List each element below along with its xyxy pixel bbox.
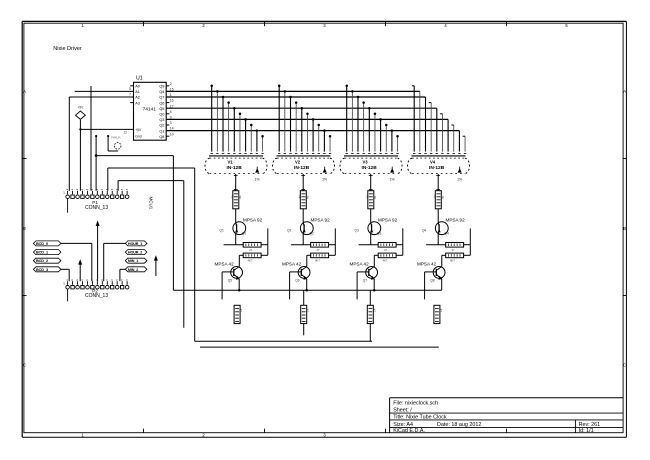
svg-text:Title: Nixie Tube Clock: Title: Nixie Tube Clock — [393, 415, 447, 421]
wire R4 to Q4 — [436, 190, 440, 223]
svg-text:Q3: Q3 — [377, 232, 381, 236]
wire U1-A2 to P1 — [69, 97, 133, 191]
svg-text:Date: 18 aug 2012: Date: 18 aug 2012 — [437, 422, 481, 428]
svg-text:U1: U1 — [136, 76, 143, 82]
wire anode rail feed — [95, 135, 174, 290]
wire R9 to riser — [396, 228, 403, 255]
wire Q6 emitter to rail — [305, 279, 308, 292]
svg-text:BCD_2: BCD_2 — [36, 259, 48, 263]
svg-text:V4: V4 — [430, 160, 436, 165]
svg-text:MCU1: MCU1 — [148, 197, 153, 210]
wire MIN_2 to P2 — [120, 269, 125, 281]
wire anode V3 to R3 — [369, 174, 373, 191]
wire +5V to U1 — [79, 128, 133, 130]
wire cathode bus K2 — [166, 96, 425, 98]
resistor R8 47K — [311, 253, 329, 263]
transistor Q1 MPSA92 — [220, 217, 263, 235]
wire anode V2 to R2 — [301, 174, 305, 191]
svg-text:Sheet: /: Sheet: / — [393, 408, 412, 414]
wire BCD_3 to P2 — [61, 269, 69, 281]
svg-text:HOUR_2: HOUR_2 — [128, 251, 142, 255]
transistor Q8 MPSA42 — [417, 261, 445, 282]
svg-text:PWR_FL: PWR_FL — [111, 137, 121, 140]
svg-text:CONN_13: CONN_13 — [85, 293, 108, 299]
svg-text:Nixie Driver: Nixie Driver — [53, 46, 82, 52]
svg-text:Q3: Q3 — [159, 118, 164, 122]
wire R1 to Q1 — [234, 190, 238, 223]
svg-text:Id: 1/1: Id: 1/1 — [579, 428, 594, 434]
resistor R14 cathode — [301, 305, 310, 323]
svg-text:Q4: Q4 — [159, 90, 164, 94]
svg-text:B: B — [623, 226, 626, 231]
svg-text:IN-12B: IN-12B — [362, 165, 378, 171]
global label BCD_0 — [33, 241, 61, 246]
svg-text:Q4: Q4 — [422, 229, 426, 233]
power +5V symbol — [76, 106, 86, 191]
global label HOUR_1 — [125, 241, 147, 246]
svg-text:Q0: Q0 — [159, 113, 164, 117]
svg-text:10: 10 — [170, 132, 174, 136]
svg-text:HOUR_1: HOUR_1 — [128, 242, 142, 246]
resistor R4 anode 1K — [433, 191, 444, 209]
wire R11 to riser — [464, 228, 471, 255]
svg-text:R2: R2 — [298, 195, 302, 199]
svg-text:IN-12B: IN-12B — [227, 165, 243, 171]
global label MIN_1 — [125, 258, 147, 263]
svg-text:Q3: Q3 — [355, 229, 359, 233]
svg-text:7: 7 — [129, 92, 131, 96]
wire anode V4 to R4 — [436, 174, 440, 191]
wire Q3 collector — [359, 234, 379, 245]
wire R12 links — [442, 255, 471, 266]
wire Q7 emitter to rail — [373, 279, 376, 292]
wire Q8 base — [425, 272, 437, 300]
wire cathode drops V4 corners — [412, 86, 465, 152]
wire Q5 emitter to rail — [238, 279, 241, 292]
svg-text:Q7: Q7 — [159, 96, 164, 100]
resistor R9 470K — [378, 243, 396, 253]
transistor Q7 MPSA42 — [350, 261, 378, 282]
wire cathode bus K8 — [166, 130, 459, 132]
nixie tube V4 IN-12B — [408, 153, 470, 181]
svg-text:KiCad E.D.A.: KiCad E.D.A. — [393, 428, 425, 434]
svg-text:File: nixieclock.sch: File: nixieclock.sch — [393, 401, 438, 407]
svg-text:Q8: Q8 — [159, 135, 164, 139]
wire R15 to bottom bus — [369, 324, 371, 342]
svg-text:Q5: Q5 — [159, 107, 164, 111]
wire cathode bus K6 — [166, 118, 448, 120]
svg-text:47: 47 — [317, 248, 321, 252]
svg-text:Q5: Q5 — [228, 278, 232, 282]
svg-text:4K7: 4K7 — [248, 259, 253, 263]
connector P1 CONN_13 — [63, 189, 129, 212]
power arrow right — [155, 256, 158, 276]
svg-text:2: 2 — [170, 82, 172, 86]
svg-text:Q2: Q2 — [159, 124, 164, 128]
resistor R3 anode 1K — [366, 191, 377, 209]
power arrow small — [79, 260, 82, 281]
global label BCD_1 — [33, 250, 61, 255]
op IC U1 74141 BCD decoder — [123, 76, 173, 141]
wire rail to R14 — [303, 290, 305, 305]
svg-text:V1: V1 — [228, 160, 234, 165]
wire Q4 collector — [426, 234, 446, 245]
wire Q8 emitter to rail — [441, 279, 443, 290]
svg-text:Q6: Q6 — [295, 278, 299, 282]
svg-text:1%: 1% — [390, 177, 395, 181]
svg-text:16: 16 — [170, 99, 174, 103]
svg-text:BCD_0: BCD_0 — [36, 242, 48, 246]
svg-text:3: 3 — [170, 121, 172, 125]
wire cathode bus K1 — [166, 90, 420, 92]
wire emitter rail — [173, 289, 441, 291]
svg-text:Q6: Q6 — [159, 101, 164, 105]
wire R3 to Q3 — [369, 190, 373, 223]
svg-text:Q1: Q1 — [159, 129, 164, 133]
wire Q7 base — [357, 272, 369, 300]
svg-text:IN-12B: IN-12B — [294, 165, 310, 171]
text Nixie Driver — [53, 46, 82, 52]
svg-text:+5V: +5V — [78, 106, 85, 110]
resistor R13 cathode — [234, 305, 243, 323]
svg-text:Q2: Q2 — [287, 229, 291, 233]
global label HOUR_2 — [125, 250, 147, 255]
svg-text:BCD_1: BCD_1 — [36, 251, 48, 255]
svg-text:MPSA 42: MPSA 42 — [350, 261, 370, 266]
svg-text:R1: R1 — [231, 195, 235, 199]
wire bottom bus feed 1 — [108, 168, 195, 341]
svg-text:4: 4 — [170, 110, 172, 114]
svg-text:47: 47 — [306, 309, 310, 313]
svg-text:47: 47 — [384, 248, 388, 252]
resistor R6 47K — [243, 253, 261, 263]
svg-text:1: 1 — [63, 191, 65, 195]
svg-text:MPSA 92: MPSA 92 — [378, 217, 398, 222]
nixie tube V3 IN-12B — [340, 153, 402, 181]
global label BCD_2 — [33, 258, 61, 263]
resistor R11 470K — [446, 243, 464, 253]
wire R2 to Q2 — [301, 190, 305, 223]
svg-text:Q8: Q8 — [430, 278, 434, 282]
svg-text:A2: A2 — [135, 96, 140, 100]
resistor R10 47K — [378, 253, 396, 263]
wire anode V1 to R1 — [234, 174, 238, 191]
pin stubs U1 left A0 A3 — [130, 86, 133, 103]
title block — [390, 398, 623, 434]
svg-text:B: B — [23, 226, 26, 231]
svg-text:MPSA 42: MPSA 42 — [417, 261, 437, 266]
transistor Q4 MPSA92 — [422, 217, 465, 235]
resistor R12 47K — [446, 253, 464, 263]
svg-text:1%: 1% — [457, 177, 462, 181]
wire Q5 base — [222, 272, 234, 300]
svg-text:47: 47 — [452, 248, 456, 252]
resistor R2 anode 1K — [298, 191, 309, 209]
svg-text:A3: A3 — [135, 101, 140, 105]
resistor R5 470K — [243, 243, 261, 253]
connector P2 CONN_13 — [63, 280, 129, 301]
wire cathode drops V3 with junctions — [345, 85, 398, 152]
svg-text:A0: A0 — [135, 85, 140, 89]
svg-text:IN-12B: IN-12B — [429, 165, 445, 171]
wire Q1 collector — [224, 234, 244, 245]
svg-text:R4: R4 — [433, 195, 437, 199]
svg-text:+5V: +5V — [135, 128, 142, 132]
svg-text:47: 47 — [249, 248, 253, 252]
svg-text:1: 1 — [63, 281, 65, 285]
wire R7 to riser — [329, 228, 336, 255]
svg-text:Q9: Q9 — [159, 85, 164, 89]
svg-text:BCD_3: BCD_3 — [36, 268, 48, 272]
wire HOUR_1 to P2 — [104, 243, 126, 281]
wire Q6 base — [290, 272, 302, 300]
svg-text:MPSA 42: MPSA 42 — [215, 261, 235, 266]
wire bottom bus A — [195, 340, 372, 342]
svg-text:4K7: 4K7 — [450, 259, 455, 263]
svg-text:Q4: Q4 — [445, 232, 449, 236]
svg-text:74141: 74141 — [143, 107, 157, 113]
global label MIN_2 — [125, 267, 147, 272]
resistor R7 470K — [311, 243, 329, 253]
svg-text:V3: V3 — [363, 160, 369, 165]
svg-text:5: 5 — [129, 87, 131, 91]
svg-text:A1: A1 — [135, 90, 140, 94]
svg-text:Q1: Q1 — [220, 229, 224, 233]
svg-text:47: 47 — [372, 309, 376, 313]
nixie tube V1 IN-12B — [205, 153, 267, 181]
wire cathode drops V2 with junctions — [278, 85, 331, 152]
wire rail to R15 — [369, 290, 371, 305]
svg-text:MIN_1: MIN_1 — [128, 259, 138, 263]
nixie tube V2 IN-12B — [273, 153, 335, 181]
svg-text:12: 12 — [123, 131, 127, 135]
power arrow P2 riser — [96, 222, 99, 282]
svg-text:MPSA 92: MPSA 92 — [446, 217, 466, 222]
svg-text:Q7: Q7 — [363, 278, 367, 282]
svg-text:47: 47 — [239, 309, 243, 313]
svg-text:Gnd: Gnd — [135, 134, 142, 138]
wire Q2 collector — [291, 234, 311, 245]
wire bottom bus B — [200, 346, 439, 348]
svg-text:4K7: 4K7 — [315, 259, 320, 263]
svg-text:MPSA 92: MPSA 92 — [311, 217, 331, 222]
svg-text:MIN_2: MIN_2 — [128, 268, 138, 272]
svg-text:Q2: Q2 — [310, 232, 314, 236]
global label BCD_3 — [33, 267, 61, 272]
svg-text:Q1: Q1 — [242, 232, 246, 236]
svg-text:MPSA 42: MPSA 42 — [282, 261, 302, 266]
wire P1 pin riser — [90, 86, 92, 191]
svg-text:A: A — [623, 89, 626, 94]
ground flag PWR_FLAG — [107, 135, 121, 151]
svg-text:MPSA 92: MPSA 92 — [243, 217, 263, 222]
resistor R16 cathode — [434, 305, 443, 323]
svg-text:4K7: 4K7 — [383, 259, 388, 263]
transistor Q6 MPSA42 — [282, 261, 310, 282]
pin stubs U1 right outputs — [166, 86, 169, 136]
resistor R1 anode 1K — [231, 191, 242, 209]
wire cathode bus K4 — [166, 107, 437, 109]
transistor Q5 MPSA42 — [215, 261, 243, 282]
wire cathode drops V1 with junctions — [210, 85, 263, 152]
svg-text:V2: V2 — [295, 160, 301, 165]
svg-text:1%: 1% — [255, 177, 260, 181]
transistor Q2 MPSA92 — [287, 217, 330, 235]
wire R10 links — [374, 255, 403, 266]
wire BCD_0 to P2 — [61, 243, 92, 281]
resistor R15 cathode — [367, 305, 376, 323]
wire R8 links — [307, 255, 336, 266]
svg-text:CONN_13: CONN_13 — [85, 205, 108, 211]
transistor Q3 MPSA92 — [355, 217, 398, 235]
svg-text:R3: R3 — [366, 195, 370, 199]
svg-text:A: A — [23, 89, 26, 94]
text MCU label — [148, 197, 153, 210]
wire R14 stub — [303, 324, 305, 336]
wire R6 links — [239, 255, 267, 266]
wire R5 to riser — [261, 228, 268, 255]
wire U1-A1 to P1 — [75, 90, 134, 92]
svg-text:47: 47 — [439, 309, 443, 313]
wire bottom bus feed 2 — [118, 181, 184, 328]
svg-text:1%: 1% — [322, 177, 327, 181]
